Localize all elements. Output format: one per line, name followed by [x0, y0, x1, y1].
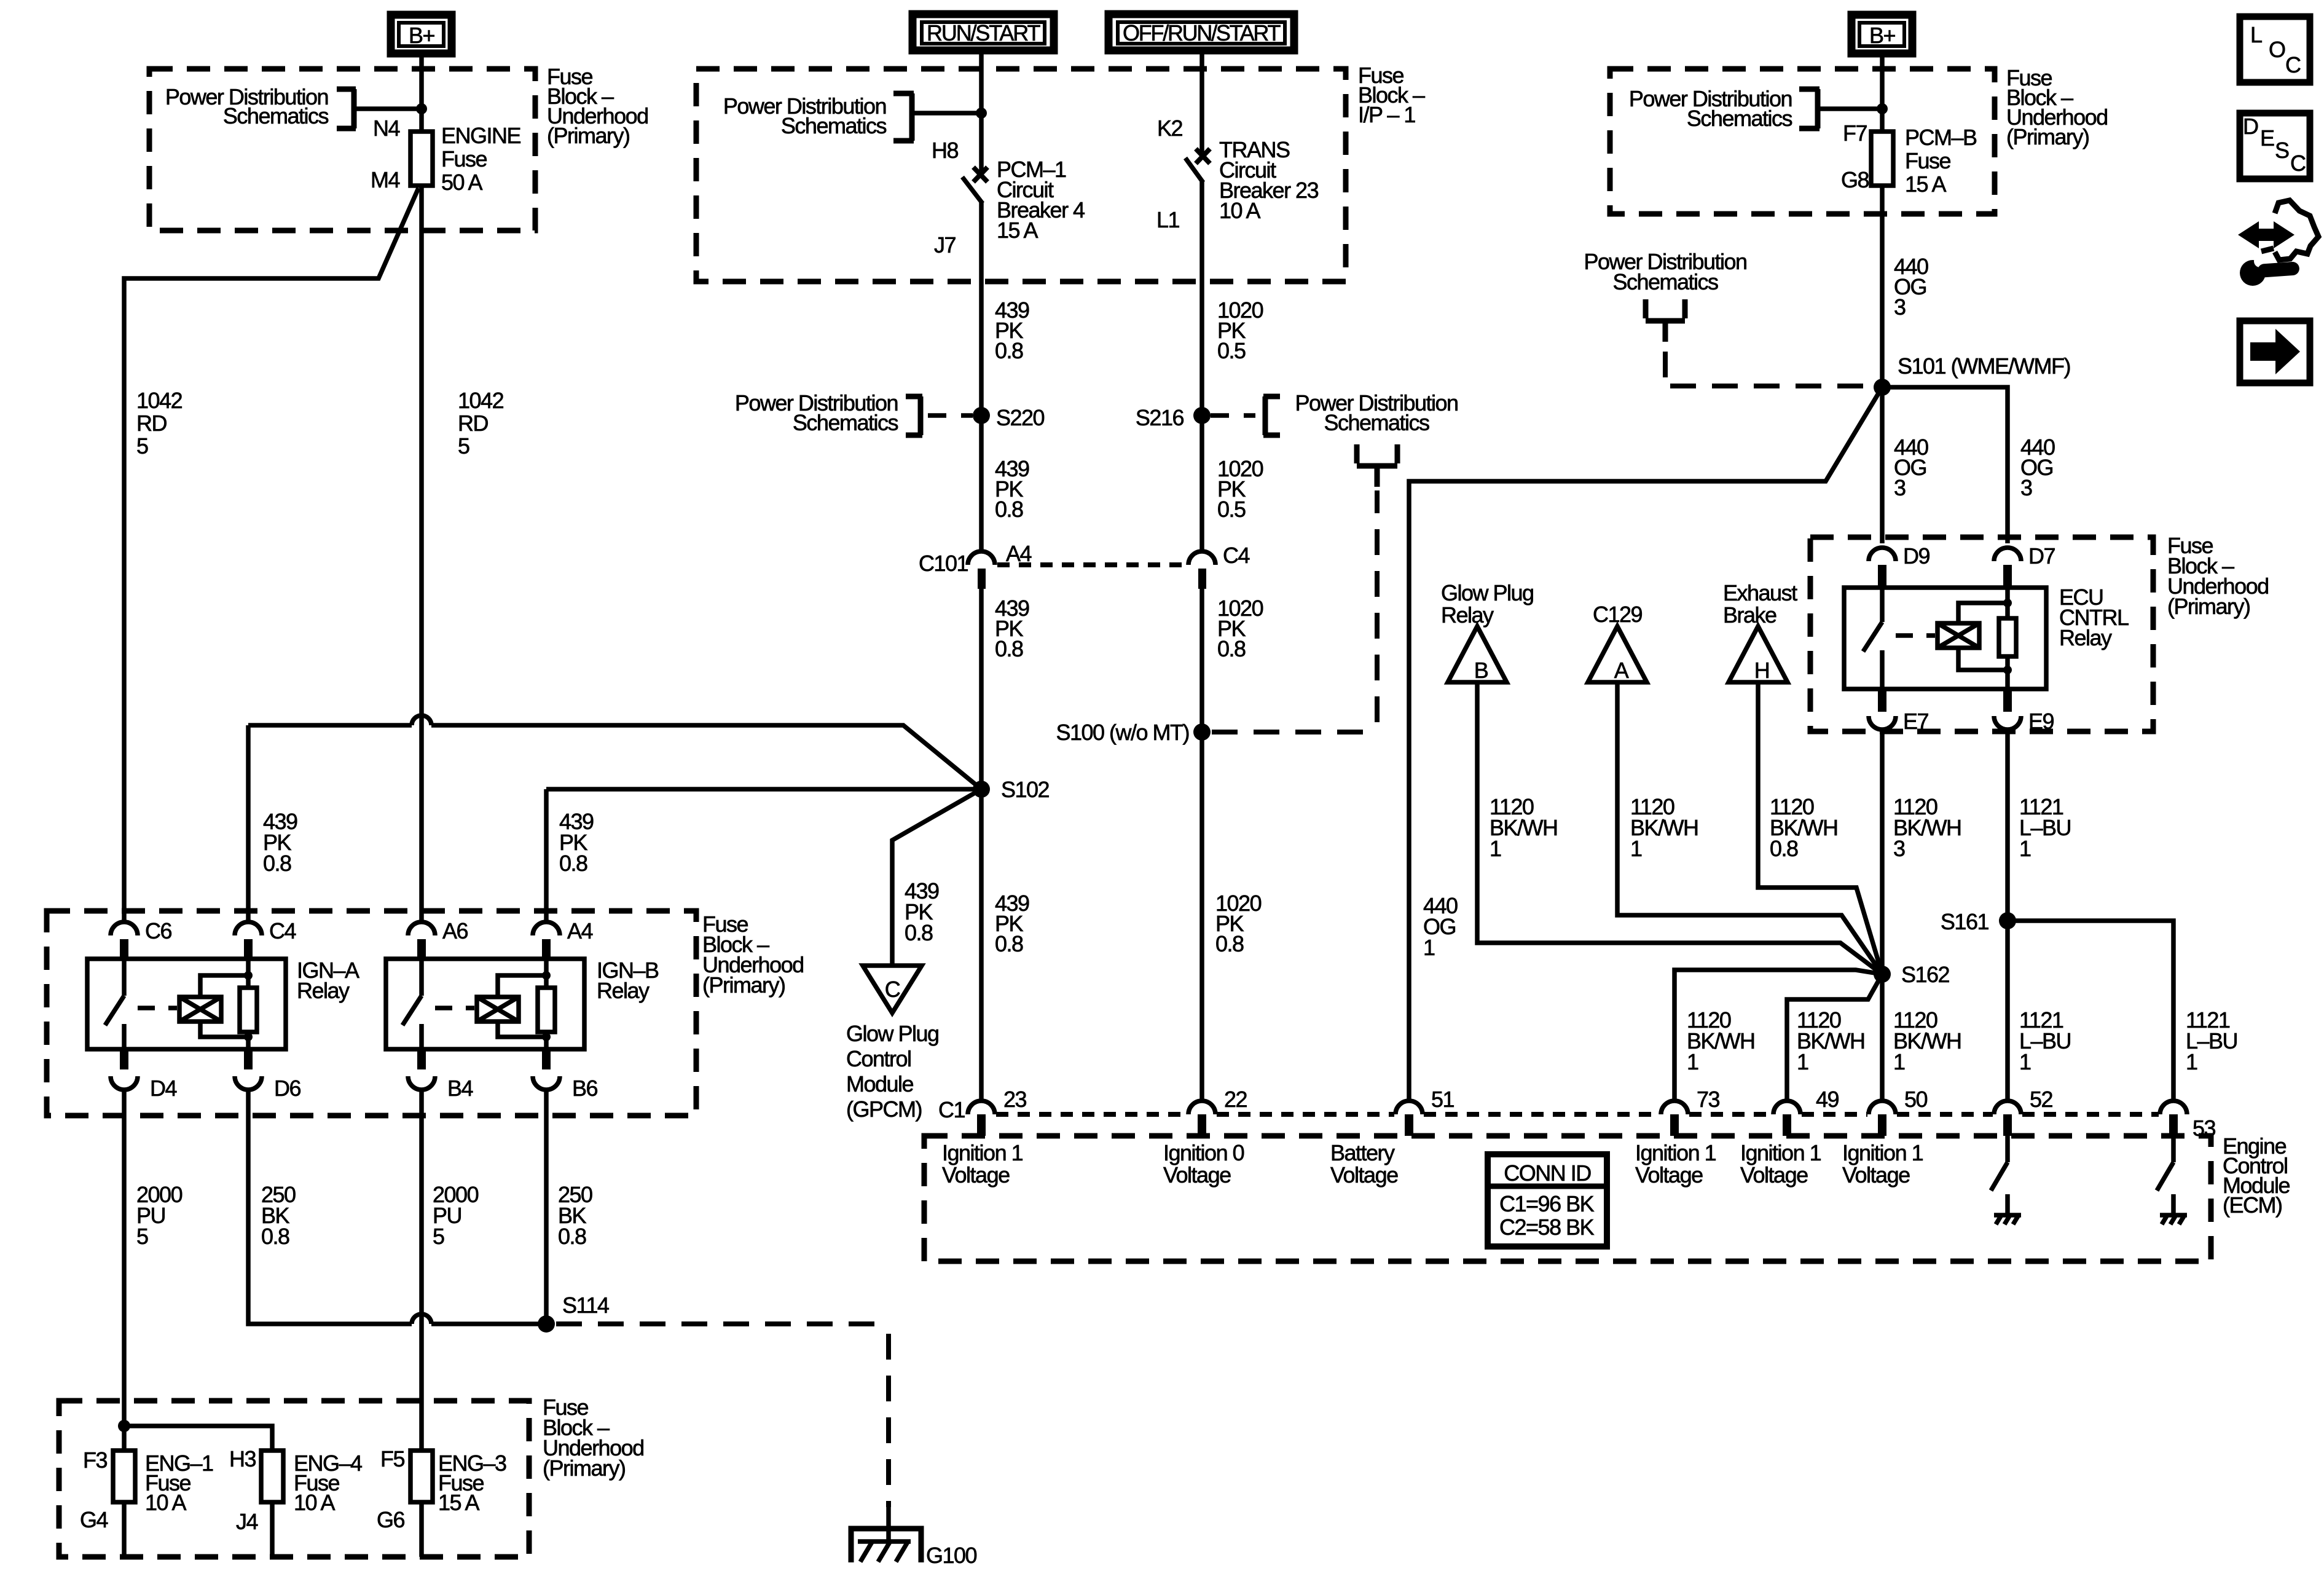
svg-text:Schematics: Schematics [1324, 410, 1429, 435]
svg-text:RD: RD [136, 411, 167, 436]
svg-text:Schematics: Schematics [1612, 269, 1718, 294]
wire S162 to pin 73 [1674, 970, 1882, 1101]
relay IGN&#8211;B dashed link [435, 1006, 474, 1010]
label Glow Plug Relay [1441, 580, 1534, 628]
relay IGN&#8211;A coil top wire [200, 975, 248, 997]
svg-text:15 A: 15 A [438, 1490, 480, 1515]
svg-text:1: 1 [2186, 1049, 2197, 1074]
wire C4 relay pin horizontal to S102 (with hop) [248, 725, 981, 922]
svg-text:OFF/RUN/START: OFF/RUN/START [1123, 20, 1281, 45]
svg-text:Glow Plug: Glow Plug [1441, 580, 1534, 605]
relay ECU switch [1863, 588, 1882, 689]
fuse ENG-4 [261, 1451, 283, 1502]
switch to ground (pin 53) [2157, 1136, 2173, 1215]
svg-text:1: 1 [2019, 836, 2031, 861]
label 2000 PU 5 (left) [136, 1182, 183, 1249]
label 1042 RD 5 (left) [136, 388, 183, 459]
svg-text:1042: 1042 [136, 388, 183, 413]
svg-text:Glow Plug: Glow Plug [846, 1021, 939, 1046]
svg-text:10 A: 10 A [294, 1490, 336, 1515]
svg-text:(Primary): (Primary) [547, 123, 629, 148]
svg-text:D9: D9 [1903, 543, 1929, 569]
svg-text:C: C [2285, 52, 2301, 77]
svg-text:Ignition 0: Ignition 0 [1163, 1140, 1244, 1165]
svg-text:Ignition 1: Ignition 1 [1740, 1140, 1821, 1165]
label IGN-B Relay [597, 958, 659, 1003]
label 250 BK 0.8 (B6) [558, 1182, 592, 1249]
wire RUN/START down to breaker [979, 53, 984, 171]
wire S101 right branch to D7 [1882, 387, 2008, 543]
node junction dot F3 branch [118, 1420, 130, 1432]
svg-text:Fuse: Fuse [1905, 148, 1951, 173]
svg-text:J4: J4 [236, 1509, 258, 1534]
label IGN-A Relay [297, 958, 359, 1003]
wire hop at B4 column [412, 1314, 431, 1324]
svg-text:B+: B+ [409, 23, 435, 48]
connector C triangle (GPCM) [863, 966, 922, 1013]
svg-text:G4: G4 [80, 1507, 108, 1532]
label 440 OG 3 (D7 wire) [2020, 435, 2055, 500]
wire below F3 [122, 1502, 127, 1557]
label Ignition 1 Voltage (pin 49) [1740, 1140, 1821, 1187]
svg-text:73: 73 [1697, 1087, 1720, 1112]
label 2000 PU 5 (B4) [433, 1182, 479, 1249]
label Engine Control Module (ECM) [2223, 1133, 2290, 1218]
relay IGN&#8211;B box [386, 959, 584, 1049]
wire S101 diagonal to battery voltage column [1409, 387, 1882, 1101]
node S114 [538, 1315, 555, 1333]
wire A4 relay pin horizontal to S102 [546, 789, 981, 922]
label Glow Plug Control Module (GPCM) [846, 1021, 939, 1122]
relay ECU coil bottom wire [1958, 648, 2008, 670]
pin 50 connector arc [1869, 1101, 1896, 1114]
svg-text:RUN/START: RUN/START [927, 20, 1041, 45]
svg-text:S161: S161 [1941, 909, 1989, 934]
svg-text:S114: S114 [562, 1293, 609, 1318]
circuit breaker PCM-1 (X mark and blade) [973, 167, 987, 182]
connector A triangle (C129) [1588, 626, 1647, 682]
wire B+ down to fuse [419, 56, 424, 132]
pin B6 connector arc [533, 1076, 560, 1090]
label 439 PK 0.8 (row 4 below S102) [995, 891, 1029, 956]
power symbol B+ (right) [1851, 15, 1912, 53]
bracket (RUN/START PDS) [893, 93, 914, 141]
label ECU CNTRL Relay [2059, 585, 2129, 650]
svg-text:3: 3 [2020, 475, 2032, 500]
pin A4 connector arc [533, 922, 560, 935]
label 439 PK 0.8 (row 3) [995, 596, 1029, 661]
svg-text:0.8: 0.8 [1770, 836, 1798, 861]
svg-text:S102: S102 [1001, 777, 1050, 802]
svg-text:Voltage: Voltage [1740, 1162, 1808, 1187]
wire B+ down to fuse PCM-B [1880, 56, 1885, 132]
svg-text:(GPCM): (GPCM) [846, 1097, 922, 1122]
svg-text:5: 5 [136, 433, 148, 459]
pin 23 connector arc [968, 1101, 995, 1114]
relay IGN&#8211;B coil [477, 997, 519, 1022]
connector H triangle (exhaust brake) [1729, 626, 1788, 682]
label 1120 BK/WH 3 [1893, 794, 1961, 861]
svg-text:0.8: 0.8 [995, 931, 1023, 956]
wire bracket to RUN/START line [912, 111, 981, 116]
svg-text:Brake: Brake [1723, 602, 1776, 628]
svg-text:Control: Control [846, 1046, 911, 1071]
svg-text:Module: Module [846, 1071, 914, 1097]
wire dashed PDS to S101 [1665, 352, 1872, 386]
fuse PCM-B 15A [1871, 132, 1893, 186]
label TRANS Circuit Breaker 23 10 A [1219, 137, 1319, 223]
pin E7 connector arc [1869, 716, 1896, 730]
wire fuse down to A6 relay pin (1042 RD column) [419, 186, 424, 922]
svg-text:E: E [2260, 125, 2274, 151]
svg-text:1042: 1042 [458, 388, 504, 413]
svg-text:C101: C101 [919, 551, 968, 576]
svg-text:M4: M4 [371, 167, 399, 192]
pin D9 connector arc [1869, 548, 1896, 561]
label 1120 BK/WH 1 (A wire) [1630, 794, 1698, 861]
label 440 OG 1 (battery wire) [1423, 893, 1458, 960]
wire bracket to B+ line [1818, 106, 1882, 111]
label 440 OG 3 (D9 wire) [1894, 435, 1928, 500]
label Power Distribution Schematics (S220) [735, 390, 898, 435]
svg-text:0.8: 0.8 [1215, 931, 1244, 956]
svg-text:F3: F3 [83, 1447, 107, 1473]
label Ignition 1 Voltage (pin 23) [942, 1140, 1023, 1187]
wire dashes bracket to S220 [928, 413, 973, 418]
label Fuse Block - Underhood (Primary) ECU [2167, 533, 2269, 619]
svg-text:15 A: 15 A [1905, 171, 1947, 197]
svg-text:1: 1 [1630, 836, 1642, 861]
svg-text:F7: F7 [1843, 120, 1867, 146]
svg-text:D7: D7 [2028, 543, 2055, 569]
wire dashed connector line C1/C2 [996, 1112, 2159, 1117]
svg-text:Voltage: Voltage [1330, 1162, 1398, 1187]
label Fuse Block - Underhood (Primary) bottom [543, 1395, 644, 1481]
label Power Distribution Schematics (top right) [1629, 86, 1792, 131]
fuse ENGINE 50A [410, 132, 433, 186]
svg-text:Ignition 1: Ignition 1 [1635, 1140, 1716, 1165]
label 1121 L-BU 1 (E9 wire) [2019, 794, 2071, 861]
ground G100 [851, 1505, 921, 1562]
svg-text:23: 23 [1003, 1087, 1027, 1112]
pin B4 connector arc [408, 1076, 435, 1090]
svg-text:C: C [885, 977, 900, 1002]
label 439 PK 0.8 (GPCM wire) [905, 878, 939, 945]
svg-text:Relay: Relay [1441, 602, 1494, 628]
relay IGN&#8211;A switch [105, 959, 124, 1049]
wire E9 down through S161 to pin 52 [2005, 730, 2010, 1101]
svg-text:Voltage: Voltage [942, 1162, 1010, 1187]
svg-text:(Primary): (Primary) [2006, 124, 2089, 149]
label 1120 BK/WH 1 (B wire) [1490, 794, 1558, 861]
svg-text:0.5: 0.5 [1217, 497, 1246, 522]
label 1020 PK 0.5 (row 1) [1217, 297, 1263, 363]
relay IGN&#8211;B coil top wire [498, 975, 546, 997]
svg-text:E9: E9 [2028, 709, 2054, 734]
svg-text:1: 1 [1797, 1049, 1808, 1074]
label 439 PK 0.8 (row 1) [995, 297, 1029, 363]
svg-text:CONN ID: CONN ID [1504, 1160, 1591, 1186]
pin C6 connector arc [111, 922, 138, 935]
svg-text:D: D [2243, 114, 2258, 139]
node junction dot [1877, 103, 1888, 114]
wire dashed C101 to C4 [997, 562, 1186, 567]
wire bracket to B+ line [354, 106, 422, 111]
fuse block underhood dashed box (top right) [1610, 69, 1995, 214]
svg-text:RD: RD [458, 411, 488, 436]
svg-text:0.8: 0.8 [995, 338, 1023, 363]
switch to ground (pin 52) [1991, 1136, 2008, 1215]
relay IGN&#8211;B switch [402, 959, 422, 1049]
wire branch to H3 fuse [124, 1426, 272, 1451]
relay ECU resistor [2005, 588, 2010, 689]
svg-text:E7: E7 [1903, 709, 1929, 734]
label 1020 PK 0.8 (row 4 below S100) [1215, 891, 1262, 956]
wire D6 down and right to S114 (hop over B4 column) [248, 1090, 546, 1324]
wire dashes S216 to bracket [1211, 413, 1255, 418]
pin 49 connector arc [1773, 1101, 1800, 1114]
svg-text:A6: A6 [442, 918, 468, 943]
label 1120 BK/WH 1 (pin 49 wire) [1797, 1007, 1865, 1074]
svg-text:5: 5 [136, 1224, 148, 1249]
bracket goalpost (S100 PDS) [1357, 444, 1397, 487]
wire dashed S100 to PDS bracket [1212, 490, 1377, 732]
svg-text:Exhaust: Exhaust [1723, 580, 1797, 605]
wire E7 down through S162 to pin 50 [1880, 730, 1885, 1101]
svg-text:50 A: 50 A [441, 170, 483, 195]
wire fuse down to S101 and on to D9 [1880, 186, 1885, 543]
svg-text:B: B [1474, 658, 1488, 683]
label Power Distribution Schematics (S101) [1584, 249, 1746, 294]
svg-text:Relay: Relay [597, 978, 650, 1003]
relay ECU CNTRL box [1844, 588, 2046, 689]
label 439 PK 0.8 (row 2) [995, 456, 1029, 522]
label Fuse Block - I/P - 1 [1358, 63, 1425, 127]
fuse ENG-3 [410, 1451, 433, 1502]
relay IGN&#8211;B coil bottom wire [498, 1022, 546, 1037]
svg-text:L: L [2250, 22, 2262, 47]
svg-text:D6: D6 [274, 1076, 300, 1101]
svg-text:3: 3 [1893, 836, 1905, 861]
svg-text:G100: G100 [926, 1543, 977, 1568]
svg-text:Schematics: Schematics [781, 113, 887, 138]
node S220 [973, 407, 990, 424]
wire S102 to glow plug control module [892, 789, 981, 966]
svg-text:Voltage: Voltage [1635, 1162, 1703, 1187]
svg-text:51: 51 [1431, 1087, 1454, 1112]
bracket goalpost (S101 PDS) [1646, 299, 1685, 342]
bracket (top right PDS) [1799, 89, 1820, 128]
svg-text:S100 (w/o MT): S100 (w/o MT) [1056, 720, 1189, 745]
svg-text:Schematics: Schematics [223, 103, 329, 128]
svg-text:10 A: 10 A [1219, 198, 1261, 223]
fuse block underhood dashed box (bottom) [59, 1401, 529, 1557]
svg-text:0.8: 0.8 [905, 920, 933, 945]
svg-text:10 A: 10 A [145, 1490, 187, 1515]
connector C101 arc (A4 side) [968, 551, 995, 565]
svg-text:I/P – 1: I/P – 1 [1358, 102, 1415, 127]
wire H to S162 [1758, 682, 1882, 974]
fuse block underhood dashed box (top left) [149, 69, 535, 230]
connector B triangle (glow plug relay) [1448, 626, 1507, 682]
wire OFF/RUN/START down to breaker [1199, 53, 1204, 152]
wire below F5 [419, 1502, 424, 1557]
svg-text:(Primary): (Primary) [2167, 594, 2250, 619]
node S161 [1999, 912, 2016, 929]
icon right-arrow box [2240, 321, 2310, 383]
svg-text:1: 1 [2019, 1049, 2031, 1074]
relay ECU coil top wire [1958, 603, 2008, 623]
wire A to S162 [1617, 682, 1882, 974]
label Ignition 1 Voltage (pin 73) [1635, 1140, 1716, 1187]
pin 53 connector arc [2160, 1101, 2187, 1114]
pin C4 connector arc [235, 922, 262, 935]
pin 51 connector arc [1396, 1101, 1423, 1114]
svg-text:Relay: Relay [2059, 625, 2112, 650]
label 440 OG 3 (above S101) [1894, 254, 1928, 320]
relay IGN&#8211;A resistor [246, 960, 251, 1049]
svg-text:1: 1 [1687, 1049, 1698, 1074]
relay IGN&#8211;A coil bottom wire [200, 1022, 248, 1037]
fuse ENG-1 [113, 1451, 135, 1502]
svg-text:0.8: 0.8 [995, 497, 1023, 522]
svg-text:D4: D4 [150, 1076, 176, 1101]
svg-text:G6: G6 [377, 1507, 405, 1532]
svg-text:Relay: Relay [297, 978, 350, 1003]
wire below C4 down to ECM pin 22 [1199, 589, 1204, 1101]
label Fuse Block - Underhood (Primary) relay block [702, 912, 804, 998]
svg-text:A4: A4 [1006, 541, 1032, 566]
connector C4 arc (right side) [1188, 551, 1215, 565]
svg-text:J7: J7 [934, 232, 956, 258]
label Exhaust Brake [1723, 580, 1797, 628]
svg-text:O: O [2269, 37, 2285, 62]
svg-text:15 A: 15 A [997, 218, 1038, 243]
wire below H3 [270, 1502, 275, 1557]
svg-text:C: C [2290, 151, 2306, 176]
svg-text:5: 5 [433, 1224, 444, 1249]
pin 22 connector arc [1188, 1101, 1215, 1114]
relay IGN&#8211;A dashed link [138, 1006, 177, 1010]
label 250 BK 0.8 (D6) [261, 1182, 296, 1249]
svg-text:Ignition 1: Ignition 1 [942, 1140, 1023, 1165]
label Fuse Block - Underhood (Primary) top right [2006, 65, 2108, 149]
svg-text:(ECM): (ECM) [2223, 1192, 2282, 1218]
svg-text:S: S [2275, 138, 2289, 163]
pin E9 connector arc [1994, 716, 2021, 730]
pin A6 connector arc [408, 922, 435, 935]
label 1120 BK/WH 0.8 (H wire) [1770, 794, 1838, 861]
svg-text:PCM–B: PCM–B [1905, 125, 1977, 150]
power symbol OFF/RUN/START [1109, 14, 1294, 50]
ECM dashed box [924, 1136, 2211, 1261]
wire S161 to pin 53 [2008, 921, 2173, 1101]
svg-text:0.8: 0.8 [559, 851, 587, 876]
svg-text:Battery: Battery [1330, 1140, 1395, 1165]
svg-text:49: 49 [1816, 1087, 1839, 1112]
label 1121 L-BU 1 (pin 53 wire) [2186, 1007, 2237, 1074]
label 1120 BK/WH 1 (pin 73 wire) [1687, 1007, 1755, 1074]
pin D4 connector arc [111, 1076, 138, 1090]
svg-text:L1: L1 [1156, 207, 1180, 232]
svg-text:B6: B6 [572, 1076, 598, 1101]
wire below C101 down to ECM pin 23 [979, 589, 984, 1101]
icon LOC box [2240, 17, 2310, 82]
icon double arrow with outline and wrench [2238, 200, 2318, 286]
node S102 [973, 781, 990, 798]
label Power Distribution Schematics (S216/S100 shared) [1295, 390, 1458, 435]
label Power Distribution Schematics (top left) [165, 84, 329, 128]
fuse block underhood dashed box (relays) [47, 911, 696, 1116]
label 1020 PK 0.8 (row 3) [1217, 596, 1263, 661]
label Ignition 0 Voltage (pin 22) [1163, 1140, 1244, 1187]
label 439 PK 0.8 (C4 wire) [263, 809, 297, 876]
label PCM-1 Circuit Breaker 4 15 A [997, 157, 1085, 243]
wire hop over 1042 RD column [412, 715, 431, 725]
svg-text:Ignition 1: Ignition 1 [1842, 1140, 1923, 1165]
svg-text:Voltage: Voltage [1163, 1162, 1231, 1187]
icon DESC box [2240, 113, 2310, 179]
label Fuse Block - Underhood (Primary) top left [547, 64, 648, 148]
svg-text:S101 (WME/WMF): S101 (WME/WMF) [1898, 353, 2070, 379]
svg-text:Schematics: Schematics [1687, 106, 1792, 131]
svg-text:0.8: 0.8 [263, 851, 291, 876]
svg-text:F5: F5 [380, 1446, 404, 1471]
svg-text:5: 5 [458, 433, 469, 459]
svg-text:ENGINE: ENGINE [441, 123, 521, 148]
label Battery Voltage (pin 51) [1330, 1140, 1398, 1187]
node S162 [1874, 966, 1891, 983]
svg-text:(Primary): (Primary) [702, 972, 785, 998]
svg-text:3: 3 [1894, 294, 1906, 320]
wire S162 to pin 49 [1787, 974, 1882, 1101]
wire B to S162 [1477, 682, 1882, 974]
label 1020 PK 0.5 (row 2) [1217, 456, 1263, 522]
svg-text:B+: B+ [1869, 23, 1896, 48]
svg-text:S162: S162 [1901, 962, 1950, 987]
svg-text:0.8: 0.8 [995, 636, 1023, 661]
svg-text:3: 3 [1894, 475, 1906, 500]
circuit breaker TRANS (X mark and blade) [1196, 149, 1210, 163]
svg-text:Schematics: Schematics [793, 410, 898, 435]
svg-text:A: A [1614, 658, 1629, 683]
ground symbol (pin 52) [1994, 1215, 2021, 1224]
svg-text:22: 22 [1224, 1087, 1247, 1112]
node S100 (w/o MT) [1193, 723, 1211, 741]
svg-text:0.8: 0.8 [261, 1224, 289, 1249]
relay ECU dashed link [1896, 633, 1935, 638]
label Power Distribution Schematics (RUN/START) [723, 93, 887, 138]
svg-text:N4: N4 [373, 116, 399, 141]
label ENGINE Fuse 50 A [441, 123, 521, 195]
svg-text:B4: B4 [447, 1076, 473, 1101]
svg-text:C6: C6 [145, 918, 171, 943]
wire diagonal from fuse to left column [124, 188, 418, 922]
svg-text:1: 1 [1490, 836, 1501, 861]
label 1120 BK/WH 1 (pin 50 wire) [1893, 1007, 1961, 1074]
pin 73 connector arc [1661, 1101, 1688, 1114]
svg-text:G8: G8 [1841, 167, 1869, 192]
svg-text:Fuse: Fuse [441, 146, 487, 171]
table CONN ID [1488, 1154, 1607, 1246]
svg-text:H3: H3 [229, 1446, 256, 1471]
fuse block underhood dashed box (ECU relay) [1810, 537, 2153, 731]
bracket (S220 PDS) [906, 396, 922, 435]
svg-text:C4: C4 [1223, 543, 1249, 568]
bracket (top left PDS) [337, 89, 356, 128]
svg-text:1: 1 [1423, 935, 1435, 960]
relay IGN&#8211;B resistor [544, 960, 549, 1049]
